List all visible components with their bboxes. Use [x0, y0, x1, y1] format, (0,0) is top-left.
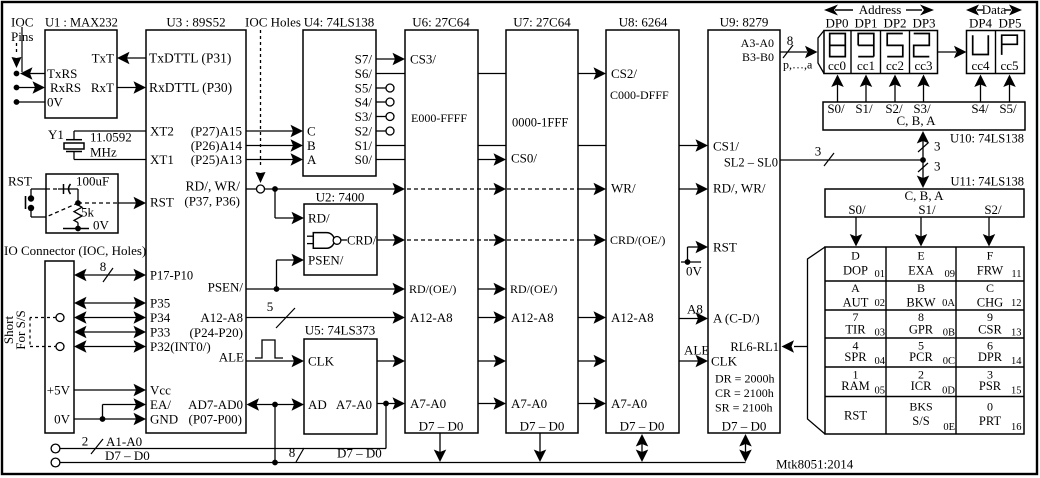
svg-text:cc2: cc2 — [886, 58, 904, 73]
key 1 RAM — [841, 368, 885, 397]
wire P35 — [74, 297, 146, 310]
wire S4 stub — [376, 98, 394, 106]
U9 CR label — [715, 386, 774, 400]
pushbutton SW1 — [26, 189, 47, 217]
svg-text:S0/: S0/ — [355, 152, 373, 167]
U2 pin PSEN — [308, 253, 344, 268]
U3 pin A13 — [191, 152, 242, 167]
wire RDWR to U8 WR — [578, 183, 606, 196]
svg-text:(P07-P00): (P07-P00) — [189, 412, 242, 427]
svg-text:12: 12 — [1011, 298, 1022, 309]
U11 title — [951, 174, 1025, 188]
U11 labels — [848, 202, 1002, 217]
A1-A0 bus label — [106, 434, 142, 449]
svg-text:E: E — [917, 249, 924, 263]
svg-text:U4: 74LS138: U4: 74LS138 — [304, 15, 374, 30]
svg-text:p,…,a: p,…,a — [783, 58, 813, 72]
wire U8 D7 double — [636, 434, 649, 462]
svg-text:EXA: EXA — [908, 263, 934, 277]
decoder U4 box — [303, 30, 376, 176]
wire RxRS — [17, 81, 46, 94]
svg-text:U2: 7400: U2: 7400 — [316, 190, 365, 205]
key 9 CSR — [978, 310, 1021, 339]
wire CS0 U4 to U6 — [376, 159, 405, 161]
latch U5 box — [304, 339, 377, 434]
wire CRD arrow U7 — [489, 234, 506, 247]
wire S2 down — [983, 217, 996, 247]
svg-text:S1/: S1/ — [355, 138, 373, 153]
svg-text:Vcc: Vcc — [150, 383, 171, 398]
U3 pin TxDTTL — [149, 51, 231, 66]
wire P17-P10 bus — [74, 269, 146, 282]
svg-text:C, B, A: C, B, A — [896, 113, 936, 128]
node AD junction — [272, 402, 278, 408]
U9 pin RST — [713, 240, 737, 255]
node 0V pin — [14, 99, 20, 105]
U3 pin P33 — [150, 325, 170, 340]
key C CHG — [977, 281, 1022, 309]
svg-text:(P25)A13: (P25)A13 — [191, 152, 242, 167]
wire U9 D7 double — [739, 434, 752, 462]
wire ALE U6 to U7 — [478, 355, 506, 368]
U9 pin A CD — [713, 311, 760, 326]
svg-text:A (C-D/): A (C-D/) — [713, 311, 760, 326]
wire RST dashed — [78, 202, 118, 204]
svg-text:D7 – D0: D7 – D0 — [520, 419, 565, 434]
U6 pin CS3 — [410, 52, 436, 67]
svg-text:PRT: PRT — [979, 414, 1002, 428]
svg-text:0V: 0V — [54, 412, 71, 427]
svg-text:FRW: FRW — [977, 263, 1004, 277]
cc1 label — [857, 58, 875, 73]
svg-text:A12-A8: A12-A8 — [200, 310, 243, 325]
node RDWR junction — [272, 186, 278, 192]
svg-text:DR = 2000h: DR = 2000h — [715, 372, 774, 386]
U4 pin B — [307, 138, 316, 153]
svg-text:PSEN/: PSEN/ — [208, 280, 244, 295]
DP1 label — [854, 16, 877, 31]
cc4 label — [971, 58, 990, 73]
crystal Y1 — [64, 131, 84, 160]
svg-text:0V: 0V — [47, 95, 64, 110]
wire short S/S dashed — [30, 318, 56, 347]
svg-text:A: A — [307, 152, 317, 167]
bus width 8 P17 — [100, 259, 113, 282]
wire XT2 — [74, 130, 146, 132]
svg-text:RL6-RL1: RL6-RL1 — [730, 340, 779, 354]
wire RDWR dashed U7 — [507, 188, 578, 190]
svg-text:S3/: S3/ — [355, 109, 373, 124]
svg-text:+5V: +5V — [47, 383, 71, 398]
svg-text:RxT: RxT — [91, 80, 114, 95]
U4 pin S4 — [355, 95, 373, 110]
wire CRD dashed U6 — [407, 239, 489, 241]
wire P33 — [74, 326, 146, 339]
DP0 label — [825, 16, 848, 31]
eprom U6 box — [405, 30, 478, 433]
wire SL up to U10 — [917, 131, 930, 160]
U3 pin P32 — [150, 339, 211, 354]
svg-text:0D: 0D — [942, 386, 955, 397]
svg-text:D7 – D0: D7 – D0 — [620, 419, 665, 434]
svg-text:TxDTTL (P31): TxDTTL (P31) — [149, 51, 231, 66]
bus width 8 display — [783, 33, 793, 58]
keypad row lines — [825, 281, 1024, 397]
wire CS1 U4 to U6 — [376, 145, 405, 147]
wire RST to U3 — [118, 197, 146, 210]
bus width 8 label — [289, 445, 304, 462]
wire ALE to U5 — [246, 355, 304, 368]
wire A7-A0 U6 to U7 — [478, 397, 506, 410]
U6 pin RD OE — [409, 282, 456, 296]
svg-text:PSR: PSR — [979, 379, 1002, 393]
bus width 3 label — [815, 144, 834, 167]
DP2 label — [883, 16, 906, 31]
mcu U3 box — [146, 30, 246, 433]
0V label U9 — [686, 264, 703, 279]
svg-text:0000-1FFF: 0000-1FFF — [512, 115, 568, 129]
svg-text:P17-P10: P17-P10 — [150, 268, 193, 282]
DP3 label — [912, 16, 935, 31]
svg-text:0C: 0C — [943, 356, 955, 367]
keypad box — [825, 247, 1024, 434]
bus width 3 down — [918, 159, 941, 174]
U8 pin WR — [611, 181, 636, 196]
wire A1-A0 bus — [60, 404, 386, 449]
hole P34 — [56, 314, 64, 322]
svg-text:05: 05 — [875, 386, 886, 397]
svg-text:(P26)A14: (P26)A14 — [191, 138, 243, 153]
wire A12-A8 to U6 — [246, 311, 405, 324]
svg-text:PCR: PCR — [909, 350, 933, 364]
svg-text:CLK: CLK — [308, 354, 335, 369]
wire CS0 U6 to U7 — [478, 153, 506, 166]
U10 labels — [827, 101, 1017, 116]
wire RD to U2 — [275, 189, 304, 224]
wire D7-D0 bus — [60, 462, 746, 464]
svg-text:ICR: ICR — [911, 379, 933, 393]
svg-text:(P37, P36): (P37, P36) — [184, 194, 240, 209]
svg-text:01: 01 — [875, 269, 886, 280]
svg-text:B3-B0: B3-B0 — [742, 50, 774, 64]
U8 title — [619, 15, 668, 30]
U4 pin C — [307, 124, 316, 139]
svg-text:A7-A0: A7-A0 — [336, 397, 372, 412]
wire ALE U7 to U8 — [578, 355, 606, 368]
Short For S/S label — [1, 310, 28, 349]
wire ALE U8 to U9 — [679, 355, 708, 368]
svg-text:S5/: S5/ — [999, 101, 1017, 116]
wire EA — [103, 398, 147, 419]
Address header — [824, 2, 934, 17]
key F FRW — [977, 249, 1022, 281]
IOC Holes label — [245, 15, 301, 30]
hole A1-A0 — [51, 444, 60, 453]
ic U1 MAX232 box — [45, 30, 117, 118]
U4 title — [304, 15, 374, 30]
IOC pins leader — [12, 27, 23, 72]
eprom U7 box — [506, 30, 578, 433]
U3 pin ALE — [219, 350, 244, 365]
svg-text:(P24-P20): (P24-P20) — [190, 325, 243, 340]
svg-text:ALE: ALE — [684, 343, 709, 358]
U4 pin S2 — [355, 124, 373, 139]
wire S1 up — [860, 75, 873, 103]
svg-text:U1 : MAX232: U1 : MAX232 — [45, 15, 118, 29]
wire RDWR to U6 — [265, 183, 406, 196]
wire U6 D7 down — [434, 433, 447, 462]
U9 pin B3-B0 — [742, 50, 774, 64]
ALE pulse symbol — [255, 340, 283, 358]
keypad flag left — [808, 247, 826, 434]
U7 title — [513, 15, 571, 30]
key 2 ICR — [911, 368, 956, 397]
wire U7 D7 down — [534, 433, 547, 462]
U1 pin labels — [47, 51, 114, 110]
svg-text:0B: 0B — [943, 328, 955, 339]
svg-text:16: 16 — [1011, 422, 1022, 433]
wire AD7 U3 to U5 — [247, 398, 305, 411]
svg-text:DP3: DP3 — [912, 16, 935, 31]
svg-text:CRD/: CRD/ — [347, 233, 377, 247]
DP5 label — [998, 16, 1021, 31]
svg-text:5: 5 — [267, 299, 274, 314]
svg-text:A1-A0: A1-A0 — [106, 434, 142, 449]
U4 pin S6 — [355, 66, 373, 81]
U7 pin D7-D0 — [520, 419, 565, 434]
svg-text:2: 2 — [82, 434, 89, 449]
U6 title — [412, 15, 470, 30]
U2 pin RD — [308, 211, 330, 226]
U3 pin XT2 — [150, 124, 174, 139]
node D7 junction left — [272, 460, 278, 466]
U9 pin CLK — [711, 354, 738, 369]
wire CRD to U8 — [578, 234, 606, 247]
wire A7-A0 U5 to U6 — [377, 397, 405, 410]
wire S0 down — [850, 217, 863, 247]
svg-text:cc3: cc3 — [914, 58, 932, 73]
ALE label right — [684, 343, 709, 358]
svg-text:S7/: S7/ — [355, 52, 373, 67]
svg-text:02: 02 — [875, 298, 886, 309]
key RST — [844, 408, 867, 422]
resistor R1 value — [81, 205, 95, 220]
svg-text:RST: RST — [150, 195, 174, 210]
svg-text:F: F — [987, 249, 994, 263]
wire P32 — [74, 340, 146, 353]
A8 label — [687, 302, 703, 317]
U4 pin S3 — [355, 109, 373, 124]
svg-text:U11: 74LS138: U11: 74LS138 — [951, 174, 1025, 188]
crystal value label — [90, 130, 132, 160]
bus width 3 up — [918, 139, 941, 154]
svg-text:GND: GND — [150, 412, 178, 427]
svg-text:TxT: TxT — [92, 51, 114, 66]
svg-text:C000-DFFF: C000-DFFF — [610, 88, 669, 102]
wire A14 to B — [246, 139, 303, 152]
U8 pin D7-D0 — [620, 419, 665, 434]
cc5 label — [1000, 58, 1018, 73]
svg-text:U7: 27C64: U7: 27C64 — [513, 15, 571, 30]
svg-text:RST: RST — [8, 174, 32, 189]
ground 0V RST — [63, 218, 110, 233]
wire S3 stub — [376, 113, 394, 121]
U3 pin PSEN — [208, 280, 244, 295]
capacitor C1 — [46, 184, 78, 203]
svg-text:DP2: DP2 — [883, 16, 906, 31]
svg-text:U10: 74LS138: U10: 74LS138 — [950, 131, 1024, 145]
U3 pin RDWR — [184, 179, 240, 209]
U3 pin RST — [150, 195, 174, 210]
IOC holes dashed leader — [256, 30, 266, 183]
U5 pin CLK — [308, 354, 335, 369]
svg-text:D7 – D0: D7 – D0 — [722, 419, 767, 434]
node PSEN junction — [274, 286, 280, 292]
wire RDWR dashed U6 — [407, 188, 489, 190]
svg-text:S5/: S5/ — [355, 81, 373, 96]
wire S3 up — [917, 75, 930, 103]
svg-text:11.0592: 11.0592 — [90, 130, 132, 145]
svg-text:RST: RST — [713, 240, 737, 255]
U9 title — [720, 15, 769, 30]
svg-text:C: C — [986, 281, 994, 295]
svg-text:14: 14 — [1011, 356, 1022, 367]
svg-text:U9: 8279: U9: 8279 — [720, 15, 769, 30]
wire DP3 to DP4 — [938, 46, 967, 59]
svg-text:SPR: SPR — [844, 350, 867, 364]
U5 title — [305, 323, 375, 338]
svg-text:U5: 74LS373: U5: 74LS373 — [305, 323, 375, 338]
svg-text:SR = 2100h: SR = 2100h — [715, 401, 772, 415]
wire A8 U8 to U9 — [679, 312, 708, 325]
digit 5 DP2 — [887, 34, 903, 57]
svg-text:CS0/: CS0/ — [511, 151, 537, 166]
D7-D0 bus label left — [105, 448, 150, 463]
svg-text:D7 – D0: D7 – D0 — [337, 446, 382, 461]
U7 range label — [512, 115, 568, 129]
svg-text:0: 0 — [987, 400, 993, 414]
U4 pin S5 — [355, 81, 373, 96]
U3 pin GND — [150, 412, 178, 427]
svg-text:MHz: MHz — [90, 145, 117, 160]
key 8 GPR — [909, 310, 955, 339]
decoder U10 box — [823, 102, 1025, 130]
wire switch dashed — [46, 203, 78, 217]
svg-text:For S/S: For S/S — [13, 310, 28, 349]
svg-text:AD: AD — [308, 397, 327, 412]
Data header — [966, 2, 1022, 17]
svg-text:CS3/: CS3/ — [410, 52, 436, 67]
U3 pin RxDTTL — [149, 80, 232, 95]
U9 pin RL6-RL1 — [730, 340, 779, 354]
wire XT1 — [74, 159, 146, 161]
wire TxT — [117, 52, 146, 65]
wire CRD from U2 — [377, 234, 405, 247]
svg-text:XT1: XT1 — [150, 152, 174, 167]
U10 title — [950, 131, 1024, 145]
svg-text:IOC Holes: IOC Holes — [245, 15, 301, 30]
svg-text:TIR: TIR — [845, 322, 866, 336]
U8 pin A12-A8 — [611, 310, 654, 325]
wire S5 up — [1003, 75, 1016, 103]
wire CS1 U6 to U7 — [478, 145, 506, 147]
key A AUT — [843, 281, 885, 309]
hole D7-D0 — [51, 458, 60, 467]
svg-text:GPR: GPR — [909, 322, 934, 336]
svg-text:S2/: S2/ — [355, 124, 373, 139]
key 0 PRT — [979, 400, 1022, 434]
svg-text:RxRS: RxRS — [50, 80, 81, 95]
U9 pin SL2-SL0 — [724, 155, 778, 169]
wire S5 stub — [376, 84, 394, 92]
svg-text:CS1/: CS1/ — [713, 139, 739, 154]
svg-text:A8: A8 — [687, 302, 703, 317]
U9 DR label — [715, 372, 774, 386]
U3 pin A15 — [191, 124, 242, 139]
node TxRS pin — [14, 71, 20, 77]
IO connector box — [45, 261, 74, 433]
IO connector 0V label — [54, 412, 71, 427]
node SL junction — [920, 157, 926, 163]
wire RDWR from U3 — [246, 188, 256, 190]
svg-text:S1/: S1/ — [855, 101, 873, 116]
svg-text:A12-A8: A12-A8 — [611, 310, 654, 325]
wire +5V Vcc — [74, 384, 146, 397]
svg-text:S4/: S4/ — [355, 95, 373, 110]
svg-text:U3 : 89S52: U3 : 89S52 — [166, 15, 225, 30]
svg-text:EA/: EA/ — [150, 397, 171, 412]
svg-text:SL2 – SL0: SL2 – SL0 — [724, 155, 778, 169]
svg-text:D7 – D0: D7 – D0 — [105, 448, 150, 463]
svg-text:BKW: BKW — [906, 295, 935, 309]
svg-text:BKS: BKS — [909, 400, 932, 414]
svg-text:3: 3 — [934, 139, 941, 154]
svg-text:8: 8 — [100, 259, 107, 274]
digit U DP4 — [973, 35, 989, 54]
svg-text:S0/: S0/ — [827, 101, 845, 116]
nand gate U2 — [307, 233, 347, 249]
svg-text:A12-A8: A12-A8 — [511, 310, 554, 325]
display DP0-DP3 box — [824, 31, 938, 74]
node RxRS pin — [14, 85, 20, 91]
capacitor C1 value — [76, 174, 109, 189]
wire AD to D7 bus — [274, 405, 276, 463]
digit 2 DP3 — [914, 34, 930, 57]
U2 title — [316, 190, 365, 205]
kbd-display U9 box — [708, 30, 780, 433]
svg-text:cc1: cc1 — [857, 58, 875, 73]
svg-text:CHG: CHG — [977, 295, 1003, 309]
svg-text:S2/: S2/ — [984, 202, 1002, 217]
svg-text:RD/, WR/: RD/, WR/ — [185, 179, 240, 194]
wire S1 down — [915, 217, 928, 247]
svg-text:S6/: S6/ — [355, 66, 373, 81]
Mtk8051 label — [776, 457, 854, 472]
svg-text:A7-A0: A7-A0 — [611, 396, 647, 411]
svg-text:RxDTTL (P30): RxDTTL (P30) — [149, 80, 232, 95]
wire 0V U1 — [17, 101, 46, 103]
svg-text:AUT: AUT — [843, 295, 869, 309]
svg-text:A7-A0: A7-A0 — [511, 396, 547, 411]
svg-text:RAM: RAM — [841, 379, 869, 393]
svg-text:CRD/(OE/): CRD/(OE/) — [610, 233, 665, 247]
cc3 label — [914, 58, 932, 73]
node RST junction — [75, 200, 81, 206]
svg-text:3: 3 — [815, 144, 822, 159]
svg-text:A: A — [851, 281, 860, 295]
wire A15 to C — [246, 125, 303, 138]
svg-text:RD/(OE/): RD/(OE/) — [510, 282, 557, 296]
